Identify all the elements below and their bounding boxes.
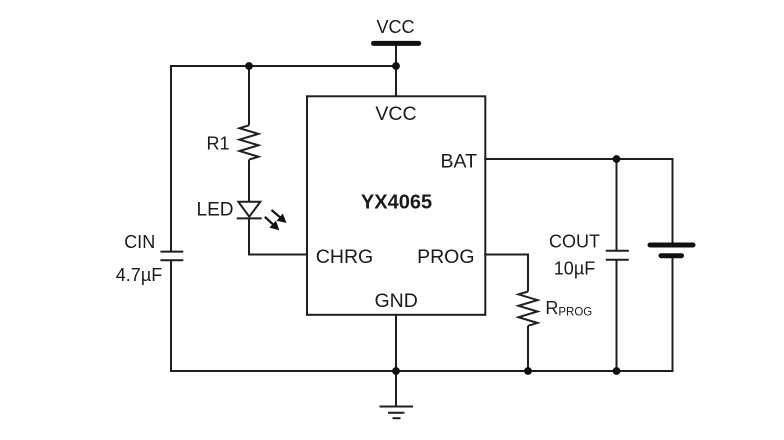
svg-text:CHRG: CHRG — [316, 246, 373, 268]
svg-text:COUT: COUT — [549, 232, 600, 252]
svg-text:GND: GND — [375, 290, 418, 312]
svg-text:4.7µF: 4.7µF — [116, 265, 162, 285]
svg-text:10µF: 10µF — [554, 259, 595, 279]
svg-text:R1: R1 — [206, 134, 229, 154]
svg-text:VCC: VCC — [376, 17, 414, 37]
svg-text:CIN: CIN — [124, 232, 155, 252]
svg-text:LED: LED — [197, 199, 234, 220]
svg-text:YX4065: YX4065 — [361, 192, 432, 214]
svg-text:VCC: VCC — [375, 103, 416, 125]
svg-text:PROG: PROG — [417, 246, 474, 268]
svg-text:BAT: BAT — [441, 151, 478, 173]
svg-text:RPROG: RPROG — [545, 298, 592, 319]
